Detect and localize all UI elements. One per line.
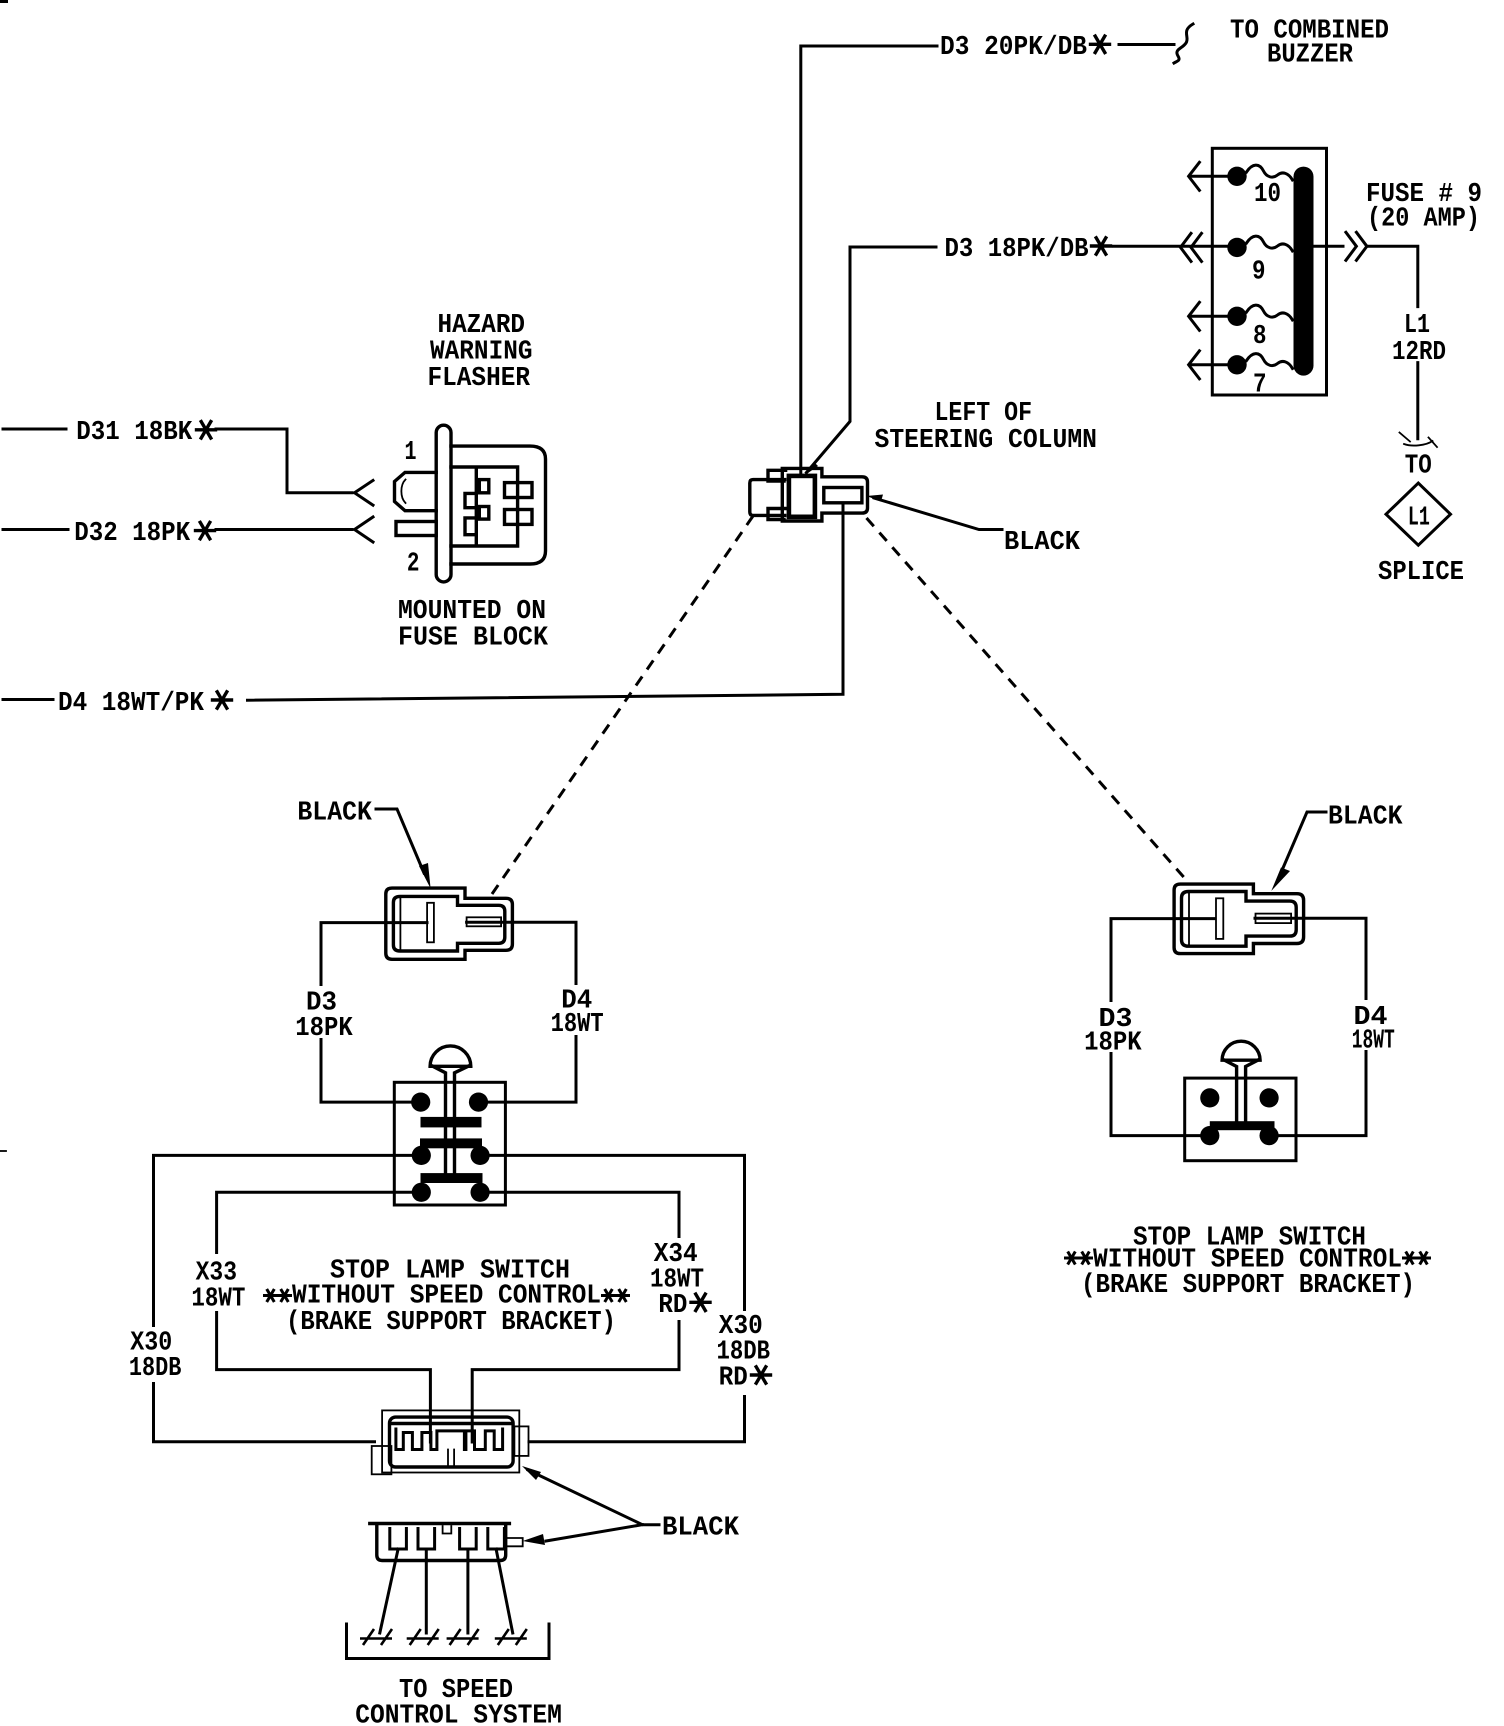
left switch plunger xyxy=(430,1046,471,1066)
fuse block box xyxy=(1212,148,1326,395)
flasher mounting flange xyxy=(436,425,451,582)
bracket connector left tab xyxy=(372,1446,392,1474)
svg-text:WARNING: WARNING xyxy=(430,338,533,368)
svg-text:FLASHER: FLASHER xyxy=(428,364,531,394)
arrowhead to free connector xyxy=(523,1534,545,1545)
svg-text:D3 20PK/DB: D3 20PK/DB xyxy=(940,33,1087,63)
pin 8 wire and chevron xyxy=(1190,315,1227,318)
speed control bracket xyxy=(347,1624,550,1659)
pin 10 wire and chevron xyxy=(1190,175,1227,178)
leader BLACK (right connector) xyxy=(1280,812,1326,875)
flasher inner cavity xyxy=(451,467,518,546)
svg-text:CONTROL SYSTEM: CONTROL SYSTEM xyxy=(355,1702,562,1726)
left switch contact bar 3 xyxy=(421,1173,483,1183)
right connector blade slot xyxy=(1256,914,1292,924)
flasher right terminals xyxy=(505,483,533,498)
wire D3 18PK/DB to steering column xyxy=(807,247,937,473)
bracket connector lock slot xyxy=(448,1450,454,1467)
steering column connector body xyxy=(750,470,786,519)
svg-text:18WT: 18WT xyxy=(191,1285,245,1315)
bracket connector shell xyxy=(390,1417,514,1467)
free connector body xyxy=(377,1526,506,1561)
wire X30 18DB RD right xyxy=(489,1155,745,1441)
svg-text:18WT: 18WT xyxy=(551,1010,604,1040)
svg-text:(20 AMP): (20 AMP) xyxy=(1367,205,1480,235)
fuse bus bar xyxy=(1294,167,1314,376)
wire D4 loop right xyxy=(467,922,576,1102)
svg-text:LEFT OF: LEFT OF xyxy=(935,399,1033,429)
flasher pin 2 prong xyxy=(396,522,436,536)
fuse pin terminals xyxy=(1227,167,1246,186)
left switch contact bar 2 xyxy=(420,1138,482,1148)
svg-text:18WT: 18WT xyxy=(1352,1027,1395,1057)
left switch contact bar 1 xyxy=(421,1117,482,1128)
wire break at splice xyxy=(1400,433,1438,448)
svg-text:9: 9 xyxy=(1252,258,1266,288)
label X30 18DB (left) xyxy=(125,1327,187,1382)
svg-text:7: 7 xyxy=(1253,371,1267,401)
fuse element squiggles xyxy=(1247,165,1293,180)
svg-text:FUSE BLOCK: FUSE BLOCK xyxy=(398,624,549,654)
svg-text:L1: L1 xyxy=(1408,504,1430,534)
svg-text:MOUNTED ON: MOUNTED ON xyxy=(398,597,546,627)
wire D3 loop right-left xyxy=(1111,919,1215,1136)
svg-text:10: 10 xyxy=(1254,180,1281,210)
svg-text:2: 2 xyxy=(407,550,420,580)
chevron terminal pin 2 xyxy=(355,517,374,542)
speed control terminals xyxy=(360,1629,392,1645)
svg-text:BLACK: BLACK xyxy=(662,1514,740,1544)
label X30 18DB RD* (right) xyxy=(712,1311,781,1395)
label D3 18PK (right) xyxy=(1081,1002,1144,1052)
free connector wires to speed control xyxy=(380,1549,513,1633)
wire label to fuse pin 9 xyxy=(1114,245,1228,248)
svg-text:SPLICE: SPLICE xyxy=(1378,558,1464,588)
svg-text:BUZZER: BUZZER xyxy=(1267,41,1354,71)
svg-text:RD: RD xyxy=(658,1291,687,1321)
leader BLACK (left connector) xyxy=(376,809,424,873)
free connector cavities xyxy=(390,1529,505,1550)
right switch pins xyxy=(1200,1088,1219,1107)
svg-text:(BRAKE SUPPORT BRACKET): (BRAKE SUPPORT BRACKET) xyxy=(1081,1271,1415,1301)
right connector outer shell xyxy=(1174,884,1304,954)
svg-text:L1: L1 xyxy=(1404,311,1430,341)
flasher inner contacts xyxy=(465,493,476,534)
wire from label to break xyxy=(1119,43,1174,46)
svg-text:BLACK: BLACK xyxy=(1328,803,1403,833)
label X33 18WT xyxy=(187,1254,249,1311)
steering connector right terminal xyxy=(824,488,862,503)
wire stub D31 xyxy=(3,428,66,431)
label D3 18PK (left) xyxy=(292,986,356,1038)
svg-text:RD: RD xyxy=(719,1364,748,1394)
right connector terminal slot xyxy=(1216,898,1223,939)
wire stub D4 xyxy=(3,698,53,701)
free connector flange xyxy=(370,1522,510,1525)
label D4 18WT (left) xyxy=(547,985,607,1035)
right switch body xyxy=(1185,1078,1296,1161)
wire D31 to flasher pin 1 xyxy=(216,429,352,493)
svg-text:(BRAKE SUPPORT BRACKET): (BRAKE SUPPORT BRACKET) xyxy=(286,1308,616,1338)
right switch plunger xyxy=(1222,1041,1260,1060)
svg-text:8: 8 xyxy=(1253,322,1267,352)
svg-text:1: 1 xyxy=(405,438,417,468)
hazard flasher body xyxy=(451,446,546,564)
wire break squiggle (to combined buzzer) xyxy=(1174,24,1193,63)
bracket connector right tab xyxy=(514,1426,528,1456)
splice L1 diamond xyxy=(1386,483,1451,545)
right connector inner shell xyxy=(1182,892,1297,947)
left connector cavity wall xyxy=(399,897,401,951)
free connector lock notch xyxy=(443,1526,452,1534)
wire D4 loop right-right xyxy=(1255,918,1366,1135)
wire X34 18WT RD xyxy=(472,1192,679,1442)
corner artifact xyxy=(0,0,8,3)
left connector blade slot xyxy=(467,917,502,926)
edge tick left xyxy=(0,1150,6,1152)
svg-text:D31 18BK: D31 18BK xyxy=(76,418,193,448)
wire D3 loop left xyxy=(321,923,427,1103)
svg-text:STEERING COLUMN: STEERING COLUMN xyxy=(875,426,1098,456)
bracket connector outer xyxy=(382,1410,519,1472)
wire fuse output to L1 xyxy=(1314,245,1344,248)
wire to L1 12RD xyxy=(1368,246,1418,306)
wire D4 to steering connector xyxy=(248,503,844,700)
svg-text:D4 18WT/PK: D4 18WT/PK xyxy=(58,689,205,719)
svg-text:BLACK: BLACK xyxy=(297,799,372,829)
left switch body xyxy=(394,1082,505,1205)
leader BLACK (steering) xyxy=(874,498,1002,530)
bracket connector cavities xyxy=(396,1429,503,1450)
label X34 18WT RD* xyxy=(647,1238,723,1320)
wire D32 to flasher pin 2 xyxy=(216,528,352,531)
arrowhead to bracket connector xyxy=(522,1466,541,1480)
left connector outer shell xyxy=(386,888,513,959)
wire L1 continues xyxy=(1416,363,1419,439)
leader BLACK (lower connectors) xyxy=(528,1470,659,1525)
svg-text:HAZARD: HAZARD xyxy=(438,311,526,341)
dashed line to left stop lamp connector xyxy=(492,516,753,894)
wire stub D32 xyxy=(3,528,68,531)
svg-text:18PK: 18PK xyxy=(295,1014,353,1044)
right switch contact bar xyxy=(1210,1121,1275,1130)
svg-text:TO: TO xyxy=(1405,452,1432,482)
steering connector pin cavity xyxy=(789,476,815,517)
left switch pins xyxy=(411,1093,430,1112)
dashed line to right stop lamp connector xyxy=(867,518,1190,883)
svg-text:18PK: 18PK xyxy=(1084,1028,1142,1058)
arrowhead at steering connector top xyxy=(803,462,818,477)
label D4 18WT (right) xyxy=(1348,1000,1398,1050)
svg-text:18DB: 18DB xyxy=(129,1354,182,1384)
wire X30 18DB left xyxy=(154,1155,413,1441)
double chevron out of fuse xyxy=(1346,232,1367,260)
double chevron into fuse pin 9 xyxy=(1181,233,1202,261)
svg-text:D32 18PK: D32 18PK xyxy=(74,519,191,549)
svg-text:D3 18PK/DB: D3 18PK/DB xyxy=(945,235,1089,265)
flasher pin 1 bulb prong xyxy=(395,472,437,510)
left connector inner shell xyxy=(393,896,504,951)
pin 7 wire and chevron xyxy=(1190,363,1227,366)
svg-text:BLACK: BLACK xyxy=(1004,528,1081,558)
left connector terminal slot xyxy=(427,903,434,943)
free connector right tab xyxy=(506,1538,523,1546)
chevron terminal pin 1 xyxy=(355,480,374,505)
right connector cavity wall xyxy=(1188,892,1190,946)
wire D3 20PK/DB to buzzer xyxy=(801,46,937,476)
wire X33 18WT xyxy=(217,1192,431,1442)
